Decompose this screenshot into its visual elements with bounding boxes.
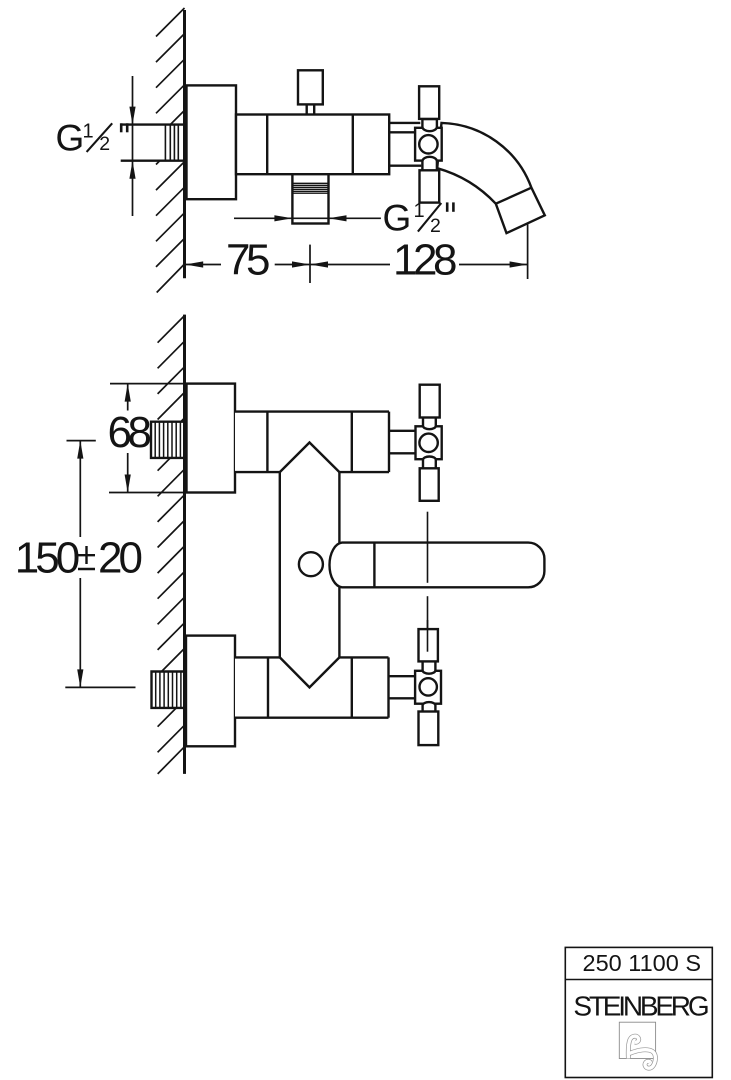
diverter knob stem xyxy=(306,104,308,114)
lower chevron (pipe break symbol) xyxy=(280,657,340,687)
dimension G1/2 bottom: arrows to shower outlet xyxy=(234,217,381,219)
lower body joint lines xyxy=(267,657,269,717)
arrowhead 75 left at wall xyxy=(185,261,203,267)
vertical column tube right edge (lower part) xyxy=(338,587,340,657)
column circle detail xyxy=(299,552,323,576)
inlet pipe edges xyxy=(121,123,185,125)
upper nipple outline xyxy=(151,422,185,458)
logo square xyxy=(619,1022,655,1058)
upper threaded nipple white mask xyxy=(151,422,185,458)
wall hatching (front view) xyxy=(158,315,185,774)
diverter knob xyxy=(298,70,323,104)
wall escutcheon (top view) xyxy=(187,85,237,199)
svg-text:STEINBERG: STEINBERG xyxy=(573,990,707,1021)
vertical column tube left edge xyxy=(279,472,281,657)
lower valve bottom handle xyxy=(419,712,439,746)
arrowhead 68 bottom xyxy=(125,475,131,493)
upper valve body (front view) xyxy=(416,426,442,459)
dimension line 75/128 xyxy=(185,224,527,283)
vertical column tube right edge (upper part) xyxy=(338,472,340,542)
svg-text:2: 2 xyxy=(430,215,441,237)
shower outlet thread lines xyxy=(292,183,328,193)
valve upper handle xyxy=(419,86,439,119)
label G1/2 left xyxy=(56,117,111,158)
wall (front view) xyxy=(183,315,186,774)
svg-text:68: 68 xyxy=(108,408,151,457)
faucet body (top view) xyxy=(236,115,389,175)
arrowhead 68 top xyxy=(125,384,131,402)
upper horizontal body (front view) xyxy=(235,412,389,473)
svg-text:G: G xyxy=(383,197,412,238)
upper nipple thread lines xyxy=(155,422,180,458)
arrowhead 150 bottom xyxy=(77,669,83,687)
inlet pipe G1/2 (top view) white mask over hatching xyxy=(133,125,185,161)
logo swirl white fill xyxy=(628,1036,638,1058)
lower nipple thread lines xyxy=(156,672,181,708)
inlet pipe thread lines xyxy=(165,125,178,161)
lever joint line xyxy=(373,543,375,588)
title block divider xyxy=(565,979,712,981)
svg-text:150: 150 xyxy=(15,534,79,583)
lower valve circle xyxy=(420,678,437,695)
upper body joint lines xyxy=(266,412,268,473)
lower nipple outline xyxy=(152,672,185,708)
arrowhead 128 left at tick xyxy=(310,261,328,267)
spout (top view) xyxy=(437,123,545,233)
arrowhead 128 right xyxy=(510,261,528,267)
arrowhead 75 right at tick xyxy=(292,261,310,267)
dimension 150+-20 extension lines xyxy=(65,441,135,688)
lower valve centerline into handle xyxy=(427,620,429,652)
dimension 68 extension lines xyxy=(109,384,235,493)
upper escutcheon (front view) xyxy=(187,384,236,493)
lever handle (front view) xyxy=(329,543,544,588)
body joint line 1 xyxy=(266,115,268,175)
arrowhead up to pipe bottom xyxy=(129,161,135,179)
svg-text:20: 20 xyxy=(98,534,141,583)
svg-text:250 1100 S: 250 1100 S xyxy=(583,950,701,976)
lower escutcheon (front view) xyxy=(186,636,235,747)
lower valve lower stem with dome xyxy=(423,702,436,712)
arrowhead 150 top xyxy=(77,441,83,459)
svg-text:1: 1 xyxy=(414,200,425,222)
lower valve top handle xyxy=(419,629,438,661)
upper valve union connector xyxy=(389,430,416,432)
svg-text:G: G xyxy=(56,117,85,158)
upper valve circle xyxy=(419,434,437,452)
upper valve bottom handle xyxy=(420,468,439,501)
valve lower handle xyxy=(420,170,440,202)
shower outlet G1/2 (bottom of body) xyxy=(292,174,328,223)
upper valve upper stem with dome xyxy=(423,417,436,429)
body joint line 2 xyxy=(352,115,354,175)
valve body (top view) xyxy=(415,128,442,161)
valve lower stem with dome xyxy=(422,157,437,171)
label G1/2 bottom xyxy=(383,197,441,238)
valve centerline upper segment xyxy=(427,512,429,583)
upper valve lower stem with dome xyxy=(423,456,436,469)
upper valve top handle xyxy=(420,385,440,418)
svg-text:75: 75 xyxy=(226,235,269,284)
logo swirl upper curl xyxy=(628,1036,638,1058)
valve circle xyxy=(419,135,437,153)
lower valve body (front view) xyxy=(415,671,441,704)
dimension G1/2 left: extension+dim lines xyxy=(132,76,134,216)
wall (top view) xyxy=(183,10,186,278)
valve upper stem with dome xyxy=(422,119,437,131)
spout joint line xyxy=(496,188,532,204)
lower valve union connector xyxy=(389,675,416,677)
upper chevron (pipe break symbol) xyxy=(280,443,340,473)
svg-text:1: 1 xyxy=(83,120,94,142)
wall hatching (top view) xyxy=(156,8,185,293)
svg-text:128: 128 xyxy=(393,235,456,284)
union connector lines to valve xyxy=(389,122,420,124)
valve centerline lower segment xyxy=(427,596,429,652)
title block frame xyxy=(565,947,712,1077)
lower threaded nipple white mask xyxy=(152,672,185,708)
lower valve upper stem with dome xyxy=(423,661,436,674)
logo swirl lower wave xyxy=(630,1050,656,1068)
arrowhead down to pipe top xyxy=(129,107,135,125)
lower horizontal body (front view) xyxy=(235,657,389,717)
